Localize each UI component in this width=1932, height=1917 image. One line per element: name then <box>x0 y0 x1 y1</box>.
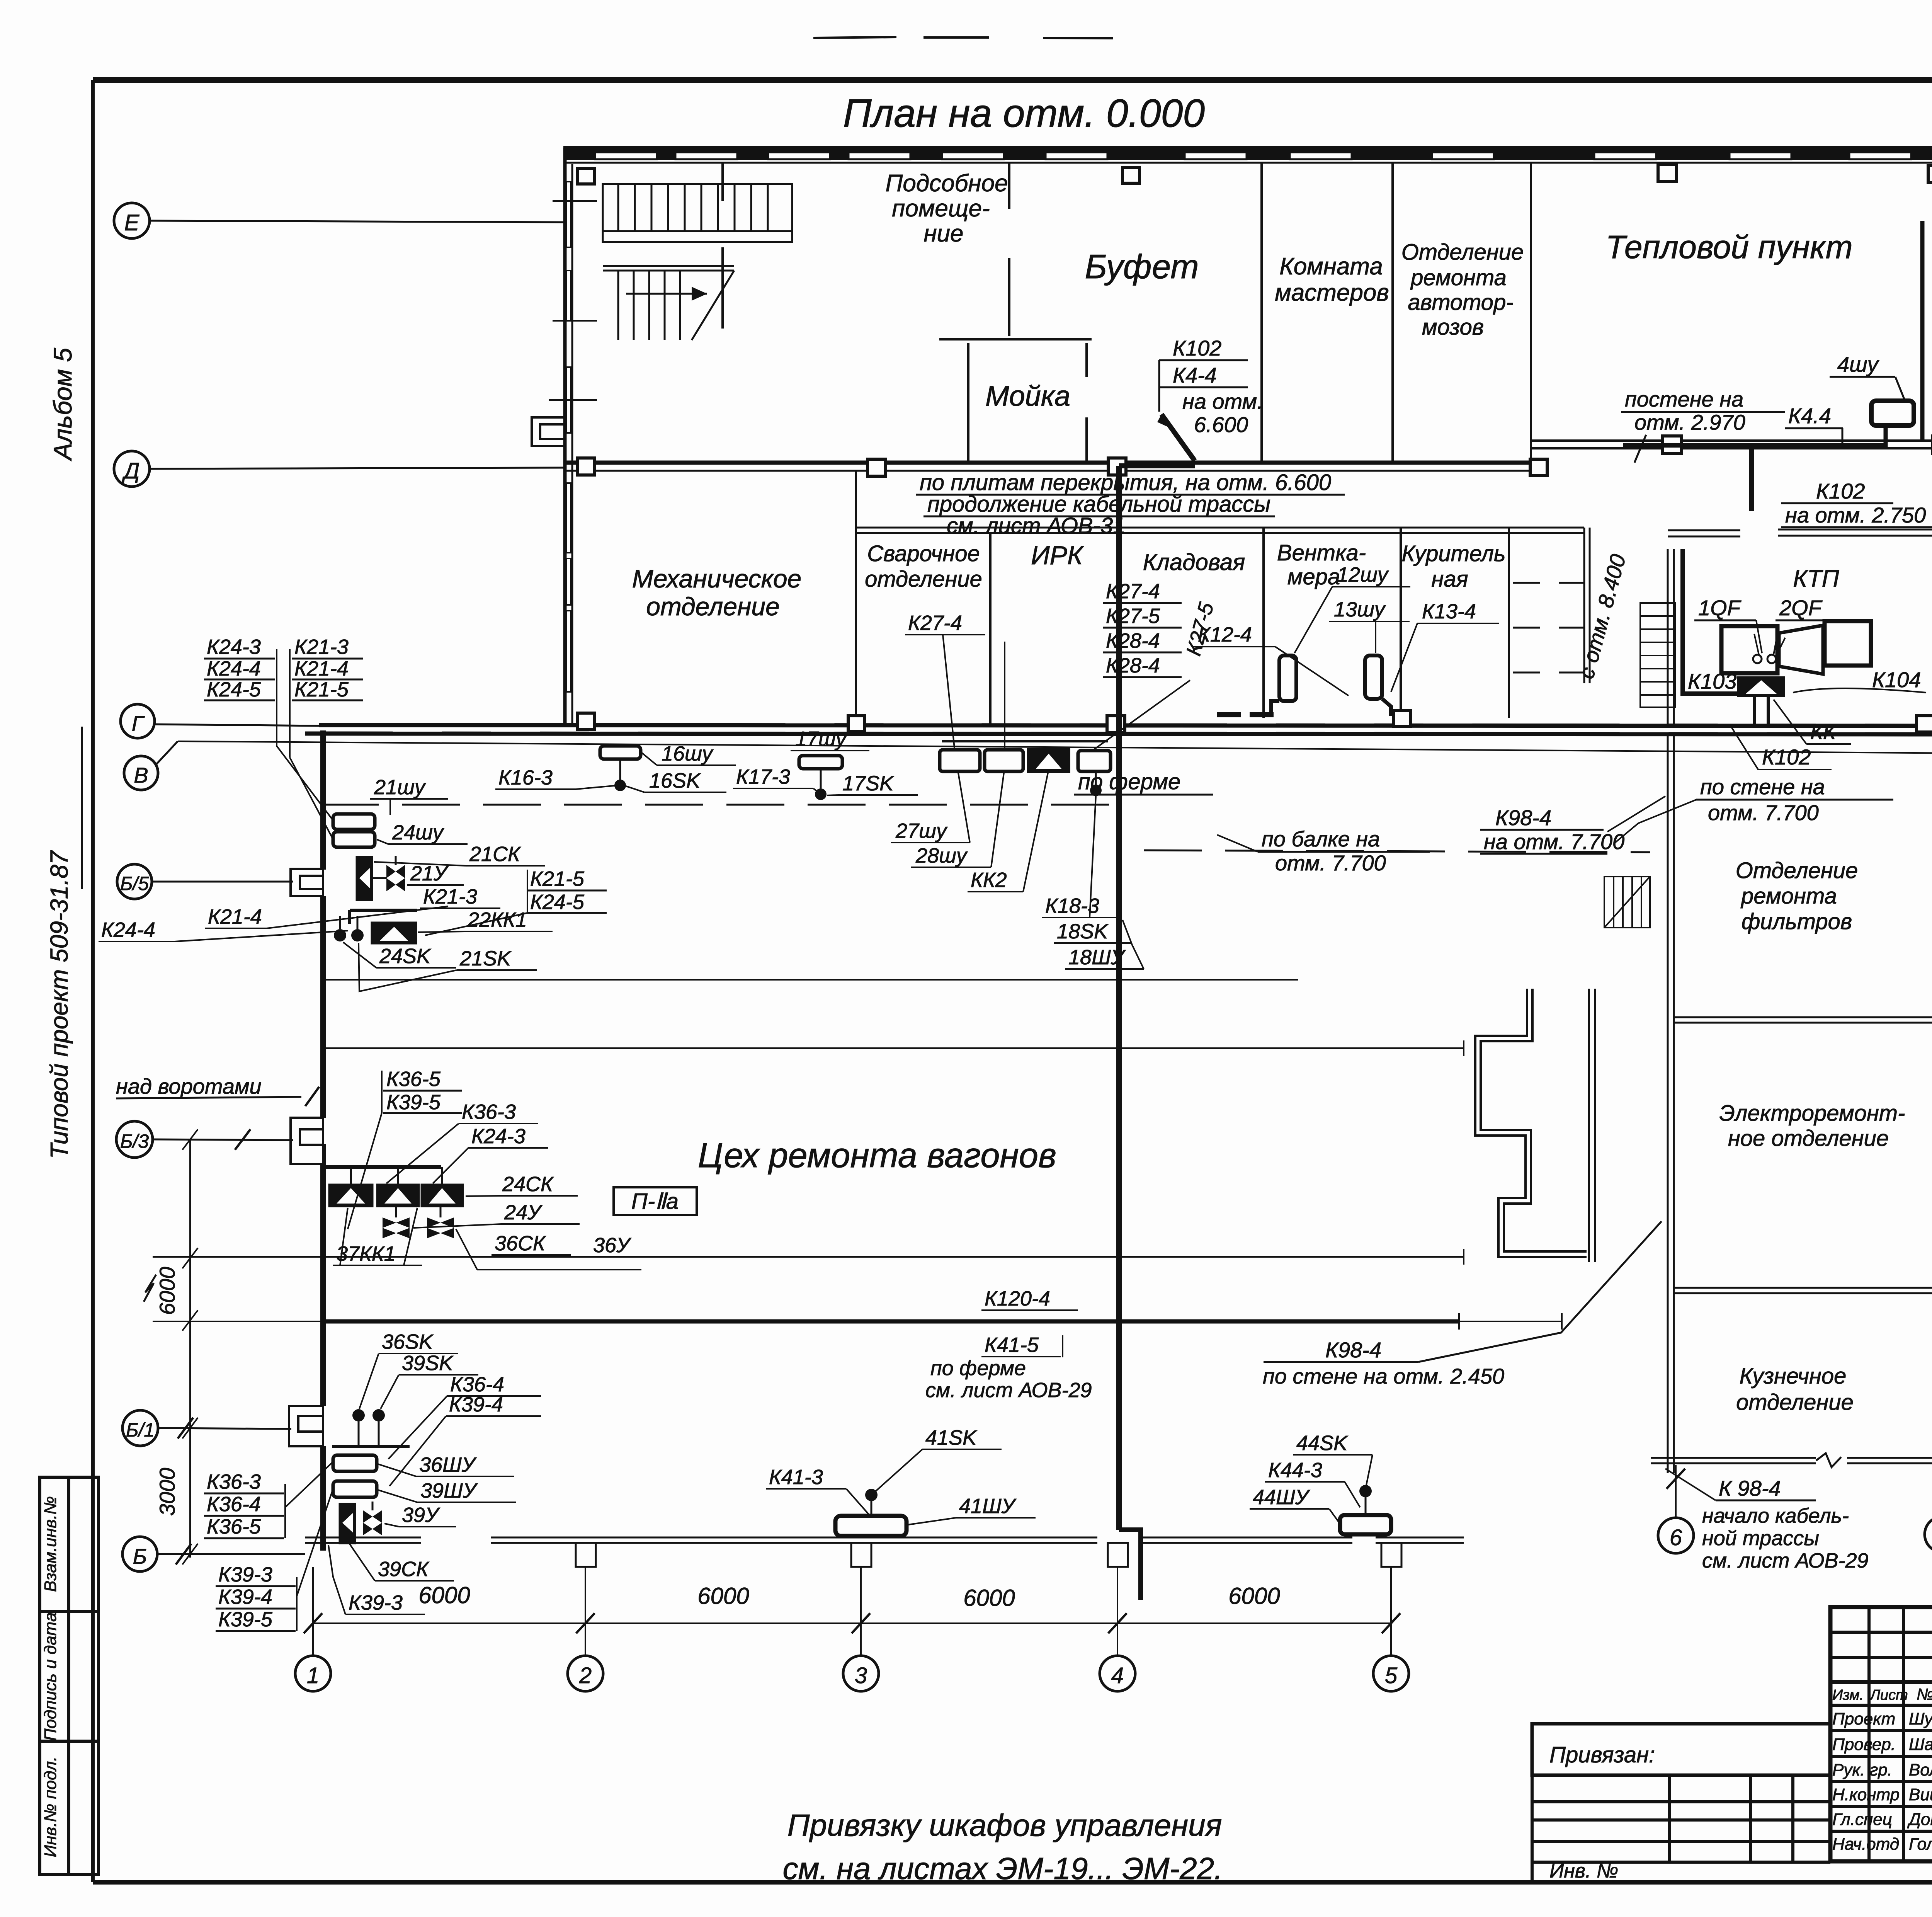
stair top-left upper flight <box>603 184 792 242</box>
cable along corridor wall <box>1119 463 1195 468</box>
bottom-left margin table <box>40 1477 99 1874</box>
svg-text:1: 1 <box>307 1663 319 1688</box>
svg-text:Б/1: Б/1 <box>126 1419 155 1441</box>
svg-text:41ШУ: 41ШУ <box>959 1495 1017 1518</box>
gate porch Б/1 <box>289 1406 323 1446</box>
label 44SK <box>1293 1432 1372 1489</box>
svg-text:КТП: КТП <box>1793 565 1839 592</box>
svg-text:2QF: 2QF <box>1779 596 1823 620</box>
svg-text:отм. 7.700: отм. 7.700 <box>1708 800 1819 825</box>
svg-text:37КК1: 37КК1 <box>336 1242 396 1265</box>
label 21шу <box>370 776 448 815</box>
partition Кладовая|Венткамера <box>1262 528 1265 718</box>
svg-text:Лист: Лист <box>1869 1687 1908 1703</box>
cable arrow to К102 label <box>1162 414 1195 461</box>
column squares row Д corridor <box>577 436 1932 476</box>
svg-text:3000: 3000 <box>155 1468 179 1516</box>
svg-text:Взам.инв.№: Взам.инв.№ <box>41 1496 60 1592</box>
svg-text:КК: КК <box>1810 719 1837 744</box>
svg-text:Шапошникова: Шапошникова <box>1909 1735 1932 1754</box>
svg-text:Шуба: Шуба <box>1909 1709 1932 1728</box>
label К12-4 <box>1193 623 1349 696</box>
label К18-3 <box>1042 796 1121 918</box>
svg-text:Рук. гр.: Рук. гр. <box>1832 1760 1892 1779</box>
svg-text:6000: 6000 <box>697 1583 749 1609</box>
svg-text:Провер.: Провер. <box>1832 1735 1896 1754</box>
svg-text:К24-5: К24-5 <box>207 678 261 701</box>
row В circle <box>124 741 1932 790</box>
svg-text:над воротами: над воротами <box>116 1074 262 1098</box>
label 4шу <box>1830 352 1905 401</box>
row Б/3 circle <box>116 1121 293 1158</box>
svg-text:24SK: 24SK <box>379 945 431 968</box>
symbol 22КК1 <box>371 922 417 944</box>
label 16SK <box>626 769 726 792</box>
svg-text:фильтров: фильтров <box>1742 909 1852 934</box>
svg-text:П-Ⅱа: П-Ⅱа <box>631 1189 679 1214</box>
svg-text:К39-5: К39-5 <box>386 1091 441 1114</box>
hall long line y2535 <box>321 979 1298 981</box>
label К24-4 <box>99 918 348 941</box>
svg-text:Отделение: Отделение <box>1401 240 1524 265</box>
svg-text:К21-5: К21-5 <box>530 867 585 890</box>
leader lines from upper stacks to cluster <box>277 746 332 819</box>
svg-text:ное отделение: ное отделение <box>1728 1126 1889 1151</box>
svg-text:К24-3: К24-3 <box>207 635 261 659</box>
svg-text:К36-3: К36-3 <box>207 1470 261 1493</box>
corridor south wall <box>855 528 1590 557</box>
dashed line under row Г <box>321 804 1115 806</box>
label по стене на отм 7.700 <box>1615 775 1893 843</box>
svg-text:отделение: отделение <box>646 592 780 621</box>
svg-text:Куритель: Куритель <box>1402 541 1506 566</box>
label К36-4 <box>388 1373 541 1459</box>
sensor dot near quad <box>1090 785 1102 796</box>
hall long line y2712 <box>321 1040 1464 1056</box>
label 24SK <box>343 942 456 968</box>
partition stairwell|Подсобное <box>721 163 724 329</box>
svg-text:К24-4: К24-4 <box>101 918 155 941</box>
category box П-IIа <box>614 1187 697 1215</box>
label 12шу <box>1294 563 1410 653</box>
svg-text:по ферме: по ферме <box>930 1357 1026 1380</box>
svg-text:Домбровский: Домбровский <box>1907 1810 1932 1829</box>
label КК <box>1774 700 1851 744</box>
svg-text:К16-3: К16-3 <box>498 766 553 789</box>
label 44ШУ <box>1250 1486 1339 1523</box>
svg-text:44SK: 44SK <box>1296 1432 1348 1455</box>
cabinet 24шу <box>333 832 375 847</box>
svg-text:К 98-4: К 98-4 <box>1719 1476 1781 1500</box>
stack К36-5 К39-5 <box>348 1067 462 1229</box>
лобби stair wall <box>1513 557 1590 683</box>
cable КТП L <box>1683 549 1738 694</box>
stack К36-3/4/5 bottom <box>204 1462 333 1538</box>
svg-text:Типовой проект 509-31.87: Типовой проект 509-31.87 <box>45 850 73 1159</box>
label К120-4 <box>981 1287 1078 1310</box>
svg-text:К21-3: К21-3 <box>423 885 477 908</box>
svg-text:Гл.спец: Гл.спец <box>1832 1810 1892 1829</box>
label 18SK <box>1054 920 1132 943</box>
valve 21У black <box>356 856 372 901</box>
svg-text:К21-4: К21-4 <box>208 905 262 928</box>
sensors 24SK dots <box>334 929 346 941</box>
valve bowtie 36У <box>427 1217 454 1238</box>
КТП transformer symbols <box>1721 621 1871 696</box>
main vertical cable <box>1116 466 1122 1530</box>
svg-text:Комната: Комната <box>1279 253 1383 280</box>
north wall with window band <box>563 149 1932 163</box>
quad cabinets at ИРК <box>940 741 1111 772</box>
row Б/1 circle <box>122 1410 291 1446</box>
gate porch Б/5 <box>291 869 323 896</box>
svg-text:17SK: 17SK <box>842 772 894 795</box>
column squares top band <box>577 165 1932 184</box>
svg-text:39У: 39У <box>402 1503 440 1527</box>
column circle 3 <box>843 1656 879 1691</box>
svg-text:Вишневский: Вишневский <box>1909 1785 1932 1804</box>
small stair below row Г right <box>1604 877 1650 928</box>
svg-text:36SK: 36SK <box>382 1330 434 1353</box>
svg-text:Г: Г <box>132 711 145 735</box>
label 24шу <box>377 821 468 844</box>
long line К120-4 <box>981 1313 1562 1330</box>
svg-text:К102: К102 <box>1173 336 1221 360</box>
cabinet 41ШУ <box>835 1489 906 1536</box>
label 39СК <box>350 1544 454 1581</box>
svg-text:К27-4: К27-4 <box>908 611 962 635</box>
gate porch Б/3 <box>291 1118 323 1164</box>
label К39-3 <box>328 1545 425 1614</box>
svg-text:6000: 6000 <box>1228 1583 1280 1609</box>
svg-text:13шу: 13шу <box>1334 598 1386 621</box>
label К103 <box>1685 669 1739 694</box>
svg-text:Н.контр: Н.контр <box>1832 1785 1900 1804</box>
svg-text:К36-5: К36-5 <box>207 1515 261 1538</box>
svg-text:К104: К104 <box>1872 667 1921 692</box>
svg-text:мозов: мозов <box>1422 315 1484 340</box>
cable 4шу elbow <box>1874 425 1886 445</box>
row Д circle <box>114 451 563 487</box>
svg-text:24шу: 24шу <box>392 821 444 844</box>
sensors dots <box>352 1409 365 1422</box>
label 21SK <box>359 943 537 991</box>
stair top-left lower flight <box>553 201 734 340</box>
label К21-3 <box>420 885 500 908</box>
partition Комната|Отд.рем.автотормозов <box>1391 163 1394 463</box>
svg-text:К36-5: К36-5 <box>386 1067 441 1091</box>
svg-text:начало кабель-: начало кабель- <box>1702 1504 1849 1527</box>
svg-text:отделение: отделение <box>1736 1390 1854 1415</box>
svg-text:К36-4: К36-4 <box>207 1493 261 1516</box>
svg-text:см. лист АОВ-29: см. лист АОВ-29 <box>925 1379 1092 1402</box>
svg-text:24У: 24У <box>504 1201 543 1224</box>
svg-text:22КК1: 22КК1 <box>467 908 527 931</box>
КТП lobby wall y1385 <box>1668 529 1932 536</box>
svg-text:отм. 7.700: отм. 7.700 <box>1275 851 1386 875</box>
row Г wall <box>305 725 1932 734</box>
svg-text:39СК: 39СК <box>378 1558 430 1581</box>
row Б/5 circle <box>117 864 293 899</box>
svg-text:Волкова: Волкова <box>1909 1760 1932 1779</box>
svg-text:К41-3: К41-3 <box>769 1466 823 1489</box>
svg-text:К27-5: К27-5 <box>1106 604 1160 628</box>
svg-text:Проект: Проект <box>1832 1709 1895 1728</box>
svg-text:по стене на: по стене на <box>1700 775 1825 799</box>
hall symbol support bracket <box>324 1144 441 1167</box>
label К102 low <box>1731 727 1832 770</box>
label К24-3 hall <box>433 1125 548 1183</box>
svg-text:ИРК: ИРК <box>1031 541 1084 570</box>
svg-text:К4-4: К4-4 <box>1173 363 1217 387</box>
svg-text:К21-3: К21-3 <box>294 635 349 659</box>
svg-text:ремонта: ремонта <box>1410 265 1507 290</box>
label 36ШУ <box>378 1453 514 1476</box>
cable bottom jog <box>1119 1530 1141 1600</box>
svg-text:Отделение: Отделение <box>1736 858 1858 883</box>
cabinet 4шу <box>1871 401 1914 426</box>
svg-text:Тепловой пункт: Тепловой пункт <box>1605 229 1852 265</box>
label 36SK <box>359 1330 458 1409</box>
svg-text:36СК: 36СК <box>495 1232 546 1255</box>
label 41SK <box>874 1426 1002 1493</box>
svg-text:27шу: 27шу <box>895 819 948 843</box>
svg-text:21У: 21У <box>410 862 449 885</box>
partition Венткамера|Курительная <box>1400 528 1402 718</box>
svg-text:36ШУ: 36ШУ <box>419 1453 477 1476</box>
svg-text:К27-4: К27-4 <box>1106 580 1160 603</box>
svg-text:Сварочное: Сварочное <box>867 541 980 566</box>
label К39-4 <box>389 1393 541 1486</box>
right wing partition 1 <box>1674 1017 1932 1023</box>
stack К39-3/4/5 bottom <box>216 1489 333 1631</box>
label по стене на отм 2.970 <box>1621 387 1785 463</box>
svg-text:Подсобное: Подсобное <box>885 170 1008 197</box>
right wing partition 2 <box>1674 1288 1932 1293</box>
svg-text:39ШУ: 39ШУ <box>420 1479 478 1502</box>
svg-text:36У: 36У <box>593 1234 631 1257</box>
svg-text:6000: 6000 <box>155 1267 179 1315</box>
svg-text:Механическое: Механическое <box>632 564 801 593</box>
label 39У <box>384 1503 456 1527</box>
label по ферме см лист АОВ-29 <box>925 1357 1092 1402</box>
cabinet 39шу <box>333 1481 377 1497</box>
svg-text:17шу: 17шу <box>795 727 847 751</box>
svg-text:39SK: 39SK <box>402 1352 454 1375</box>
svg-text:К39-5: К39-5 <box>218 1608 273 1631</box>
cabinet 17ШУ <box>799 756 842 800</box>
label над воротами <box>116 1074 319 1106</box>
corridor north wall (bottom of top rooms) <box>563 463 1530 471</box>
label К13-4 <box>1391 600 1499 692</box>
svg-text:К17-3: К17-3 <box>736 765 790 788</box>
svg-text:К102: К102 <box>1762 745 1811 769</box>
svg-text:К24-4: К24-4 <box>207 657 261 680</box>
label 41ШУ <box>908 1495 1036 1525</box>
label 13шу <box>1329 598 1410 653</box>
svg-text:24СК: 24СК <box>502 1173 554 1196</box>
column circle 4 <box>1100 1656 1135 1691</box>
label 39ШУ <box>378 1479 516 1502</box>
label 39SK <box>381 1352 478 1409</box>
valve bowtie 24У <box>383 1217 410 1238</box>
svg-text:Б/3: Б/3 <box>120 1130 149 1152</box>
svg-text:К39-4: К39-4 <box>218 1585 272 1609</box>
svg-text:Цех ремонта вагонов: Цех ремонта вагонов <box>698 1136 1056 1175</box>
вент cabinet 13шу <box>1365 655 1391 716</box>
south platform edge <box>305 1537 1464 1543</box>
svg-text:К4.4: К4.4 <box>1788 403 1831 428</box>
symbol box2 <box>377 1184 419 1207</box>
svg-text:КК2: КК2 <box>971 868 1007 892</box>
svg-text:Электроремонт-: Электроремонт- <box>1719 1101 1905 1126</box>
svg-text:28шу: 28шу <box>915 844 968 867</box>
svg-text:6.600: 6.600 <box>1194 412 1248 437</box>
svg-text:мастеров: мастеров <box>1275 279 1389 306</box>
svg-text:К13-4: К13-4 <box>1422 600 1476 623</box>
stack К24-3/4/5 <box>204 635 277 746</box>
partition Механическое|Сварочное <box>855 471 857 725</box>
svg-text:К98-4: К98-4 <box>1325 1338 1381 1362</box>
label К36-3 <box>386 1100 538 1183</box>
svg-text:В: В <box>134 763 148 787</box>
svg-text:К39-4: К39-4 <box>449 1393 503 1416</box>
column circle 1 <box>295 1656 331 1691</box>
svg-text:21СК: 21СК <box>469 843 521 866</box>
row Б circle <box>122 1537 305 1571</box>
svg-text:К98-4: К98-4 <box>1495 805 1551 830</box>
привязан block <box>1532 1724 1830 1882</box>
symbol box3 <box>421 1184 463 1207</box>
partition Отд.рем.авт|Тепловой пункт <box>1530 163 1532 463</box>
svg-text:К24-3: К24-3 <box>471 1125 526 1148</box>
svg-text:ная: ная <box>1431 567 1468 592</box>
column circle 6 (right wing) <box>1658 1465 1694 1553</box>
Мойка room walls <box>939 339 1092 463</box>
svg-text:на отм. 7.700: на отм. 7.700 <box>1484 829 1624 854</box>
svg-text:Буфет: Буфет <box>1085 247 1199 286</box>
svg-text:К28-4: К28-4 <box>1106 629 1160 652</box>
вент cabinet 12шу <box>1271 655 1296 716</box>
svg-text:План на отм. 0.000: План на отм. 0.000 <box>843 91 1205 135</box>
row Б wall <box>153 1313 1459 1330</box>
cable К102 drop <box>1749 448 1754 511</box>
svg-text:ние: ние <box>923 220 963 247</box>
svg-text:К36-3: К36-3 <box>462 1100 516 1124</box>
svg-text:Б/5: Б/5 <box>120 873 149 894</box>
row E circle <box>114 203 563 238</box>
label 21СК <box>374 843 545 866</box>
svg-text:6000: 6000 <box>418 1582 470 1608</box>
svg-text:см. на листах ЭМ-19... ЭМ-22.: см. на листах ЭМ-19... ЭМ-22. <box>783 1851 1223 1886</box>
symbol 24СК box1 <box>329 1184 373 1207</box>
КТП room west wall <box>1668 549 1674 725</box>
label 24У <box>413 1201 580 1228</box>
label 21У <box>407 862 464 885</box>
svg-text:Инв. №: Инв. № <box>1549 1860 1618 1882</box>
hall west wall with gate openings <box>320 730 326 1551</box>
svg-text:21шу: 21шу <box>374 776 426 799</box>
svg-text:Вентка-: Вентка- <box>1277 540 1366 565</box>
svg-text:ной трассы: ной трассы <box>1702 1527 1819 1550</box>
label КК2 <box>968 773 1048 892</box>
svg-text:К102: К102 <box>1816 479 1865 503</box>
partition ИРК|Кладовая <box>1117 533 1119 725</box>
svg-text:Кладовая: Кладовая <box>1143 549 1245 575</box>
column circle 2 <box>568 1656 603 1691</box>
svg-text:Привязку шкафов управления: Привязку шкафов управления <box>787 1808 1222 1842</box>
svg-text:41SK: 41SK <box>925 1426 977 1449</box>
label 1QF <box>1694 596 1762 653</box>
svg-text:21SK: 21SK <box>459 947 512 970</box>
label 2QF <box>1776 596 1839 653</box>
Тепловой пункт bottom wall <box>1530 441 1932 448</box>
svg-text:мера: мера <box>1287 564 1340 589</box>
cabinet 16ШУ <box>600 746 641 791</box>
label 36СК <box>492 1232 571 1255</box>
hall long line y3252 <box>153 1249 1464 1265</box>
label К98-4 по стене на отм 2.450 <box>1263 1221 1662 1388</box>
svg-text:2: 2 <box>579 1663 592 1688</box>
stack К27-4 К27-5 К28-4 К28-4 <box>1005 580 1182 748</box>
svg-text:5: 5 <box>1385 1663 1398 1688</box>
west wall window tick <box>549 399 597 401</box>
svg-text:отделение: отделение <box>865 567 982 592</box>
svg-text:Инв.№ подл.: Инв.№ подл. <box>41 1757 60 1857</box>
partition Буфет|Комната мастеров <box>1260 163 1263 463</box>
label 18ШУ <box>1065 920 1144 969</box>
svg-text:см. лист АОВ-29: см. лист АОВ-29 <box>1702 1549 1869 1572</box>
dashed line right part <box>1144 850 1650 852</box>
column circle 5 <box>1373 1656 1409 1691</box>
svg-text:К21-5: К21-5 <box>294 678 349 701</box>
row Г circle <box>121 704 321 738</box>
cable on Тепловой wall <box>1623 443 1874 448</box>
label К104 <box>1793 667 1926 693</box>
svg-text:Альбом 5: Альбом 5 <box>48 348 77 461</box>
stair near КТП lobby <box>1640 603 1675 707</box>
svg-text:автотор-: автотор- <box>1408 290 1513 315</box>
svg-text:Голодник: Голодник <box>1909 1835 1932 1854</box>
svg-text:44ШУ: 44ШУ <box>1253 1486 1310 1509</box>
label 17шу <box>791 727 869 751</box>
svg-text:№ докум.: № докум. <box>1917 1685 1932 1703</box>
label К102 К4-4 на отм 6.600 <box>1159 336 1263 437</box>
label 28шу <box>911 773 1004 867</box>
column circle 7 (right wing) <box>1925 1465 1932 1552</box>
label К27-4 leader <box>905 611 985 748</box>
svg-text:Е: Е <box>124 210 140 235</box>
svg-text:16SK: 16SK <box>649 769 701 792</box>
label 36У <box>456 1229 641 1270</box>
svg-text:Привязан:: Привязан: <box>1549 1742 1655 1767</box>
svg-text:К120-4: К120-4 <box>985 1287 1050 1310</box>
partition Подсобное|Буфет <box>1008 163 1010 336</box>
label К17-3 <box>733 765 819 793</box>
column squares row Г <box>578 710 1932 733</box>
west wall upper (row E..Г) with windows <box>565 148 572 725</box>
left grid verticals <box>1867 1607 1871 1861</box>
stack К21-3/4/5 <box>290 635 363 758</box>
svg-text:на отм.: на отм. <box>1182 389 1263 414</box>
label 24СК <box>466 1173 578 1196</box>
svg-text:ремонта: ремонта <box>1740 884 1837 909</box>
svg-text:16шу: 16шу <box>662 742 714 765</box>
note по плитам перекрытия <box>916 470 1345 538</box>
svg-text:Изм.: Изм. <box>1832 1687 1864 1703</box>
svg-text:по балке на: по балке на <box>1262 827 1380 851</box>
svg-text:К41-5: К41-5 <box>985 1333 1039 1357</box>
